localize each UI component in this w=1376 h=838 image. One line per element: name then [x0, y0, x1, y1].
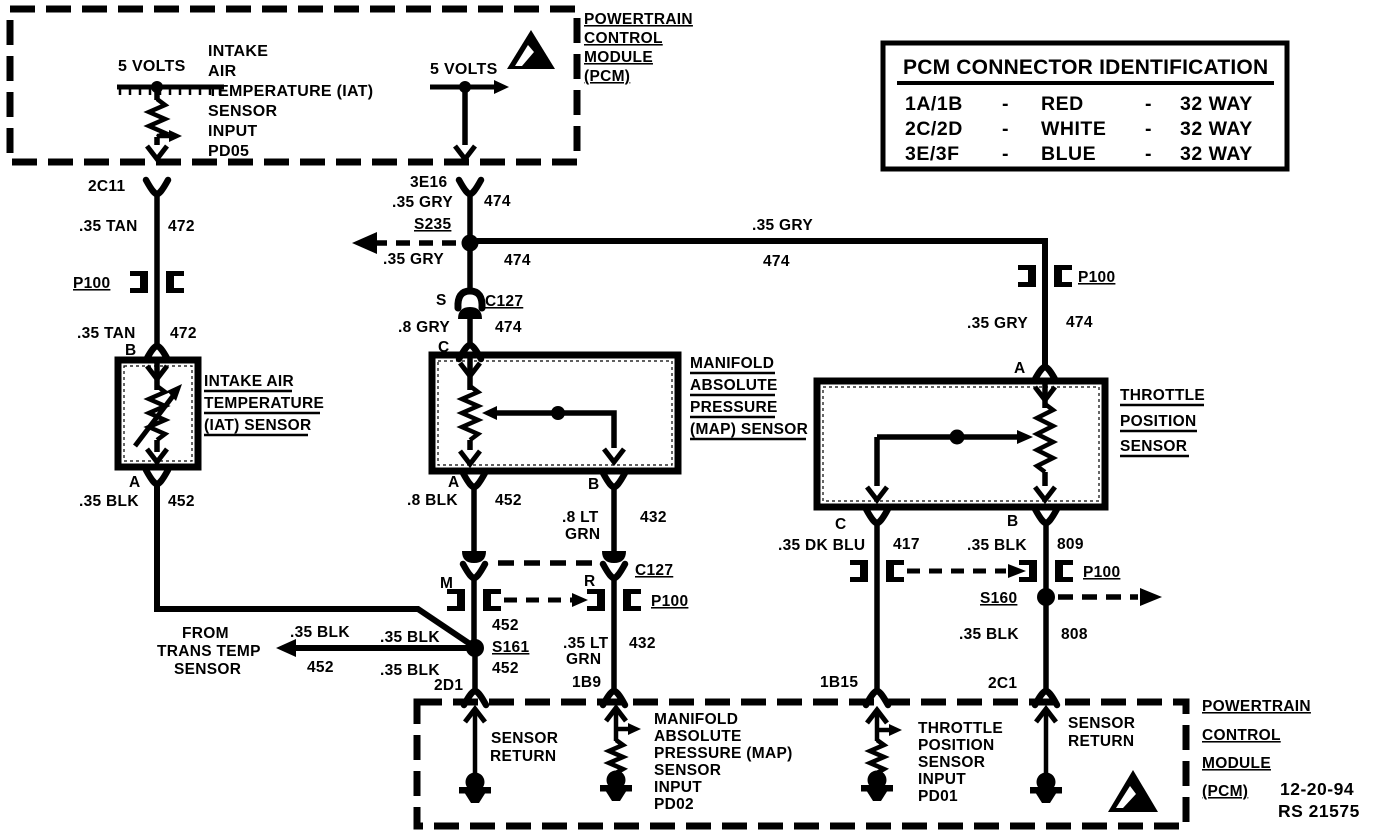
svg-text:.35 TAN: .35 TAN — [77, 325, 136, 342]
label: THROTTLE POSITION SENSOR — [1120, 387, 1205, 456]
label: .35 GRY (left branch) — [383, 251, 444, 268]
svg-text:.8 LT: .8 LT — [562, 509, 599, 526]
pin A label (IAT sensor) — [129, 474, 141, 491]
splice S161 — [466, 639, 484, 657]
pin A label (TPS) — [1014, 360, 1026, 377]
pin 1B15 label — [820, 674, 858, 691]
label: .35 DK BLU 417 — [778, 536, 920, 554]
ground (1B9 MAP input) — [600, 771, 632, 802]
pin B label (MAP sensor) — [588, 476, 600, 493]
svg-text:474: 474 — [763, 253, 790, 270]
svg-text:C: C — [835, 516, 847, 533]
ground (2D1 sensor return) — [459, 773, 491, 804]
svg-text:SENSOR: SENSOR — [208, 103, 278, 120]
connector P100 label (C/B) — [1083, 564, 1120, 581]
pin C label (TPS) — [835, 516, 847, 533]
svg-text:P100: P100 — [1083, 564, 1120, 581]
label: .35 TAN 472 (upper) — [79, 218, 195, 235]
svg-text:S235: S235 — [414, 216, 451, 233]
IAT thermistor element — [135, 363, 182, 462]
svg-text:452: 452 — [495, 492, 522, 509]
pin C label (MAP sensor) — [438, 339, 450, 356]
svg-text:POWERTRAIN: POWERTRAIN — [584, 11, 693, 28]
label: THROTTLE POSITION SENSOR INPUT PD01 — [918, 720, 1003, 805]
svg-text:32 WAY: 32 WAY — [1180, 118, 1253, 140]
label: .35 GRY 474 (3E16) — [392, 193, 511, 211]
svg-text:TRANS TEMP: TRANS TEMP — [157, 643, 261, 660]
svg-text:.35 TAN: .35 TAN — [79, 218, 138, 235]
svg-text:2C/2D: 2C/2D — [905, 118, 963, 140]
svg-text:PD05: PD05 — [208, 143, 249, 160]
TPS sensor box — [817, 381, 1105, 507]
connector fork at pin 2C11 — [146, 180, 168, 194]
svg-text:.35 BLK: .35 BLK — [380, 629, 440, 646]
svg-text:TEMPERATURE (IAT): TEMPERATURE (IAT) — [208, 83, 373, 100]
connector P100 pass-through (C wire) — [850, 560, 904, 582]
connector C127 half (R wire, male dome) — [602, 551, 626, 563]
drawing number RS 21575 — [1278, 801, 1360, 821]
svg-text:.35 BLK: .35 BLK — [290, 624, 350, 641]
svg-text:32 WAY: 32 WAY — [1180, 93, 1253, 115]
5V supply rail with arrow (MAP/TPS) — [430, 80, 509, 94]
svg-text:R: R — [584, 573, 596, 590]
TPS potentiometer element — [1035, 384, 1055, 500]
label: .35 BLK (diagonal feed) — [380, 629, 440, 646]
label: .35 BLK over 452 (trans temp branch) — [290, 624, 350, 676]
svg-text:.35 BLK: .35 BLK — [959, 626, 1019, 643]
svg-text:PRESSURE: PRESSURE — [690, 399, 778, 416]
label: POWERTRAIN CONTROL MODULE (PCM) bottom right — [1202, 698, 1311, 800]
svg-text:A: A — [448, 474, 460, 491]
svg-text:A: A — [1014, 360, 1026, 377]
connector fork at PCM pin 1B15 — [866, 691, 888, 705]
svg-text:(MAP) SENSOR: (MAP) SENSOR — [690, 421, 808, 438]
svg-text:.35 GRY: .35 GRY — [967, 315, 1028, 332]
label: .35 BLK 808 — [959, 626, 1088, 643]
svg-text:1A/1B: 1A/1B — [905, 93, 963, 115]
label: SENSOR RETURN (2D1) — [490, 730, 558, 765]
branch arrow right (IAT input tap) — [157, 130, 182, 142]
wire: circuit 474 from S235 right and down to TPS pin A — [477, 241, 1045, 366]
svg-text:AIR: AIR — [208, 63, 237, 80]
svg-text:5 VOLTS: 5 VOLTS — [430, 61, 498, 78]
svg-text:SENSOR: SENSOR — [491, 730, 558, 747]
label: INTAKE AIR TEMPERATURE (IAT) SENSOR INPUT PD05 — [208, 43, 373, 160]
dashed off-page branch right from S160 — [1058, 588, 1162, 606]
svg-text:P100: P100 — [651, 593, 688, 610]
svg-text:(PCM): (PCM) — [1202, 783, 1248, 800]
svg-text:POSITION: POSITION — [1120, 413, 1196, 430]
connector P100 pass-through (TPS feed) — [1018, 265, 1072, 287]
connector fork at PCM pin 1B9 — [603, 691, 625, 705]
label: MANIFOLD ABSOLUTE PRESSURE (MAP) SENSOR INPUT PD02 — [654, 711, 793, 813]
svg-text:CONTROL: CONTROL — [1202, 727, 1281, 744]
svg-text:PCM CONNECTOR IDENTIFICATION: PCM CONNECTOR IDENTIFICATION — [903, 56, 1268, 79]
pin 2D1 label — [434, 677, 463, 694]
internal PCM pull-up resistor (IAT input) — [149, 99, 165, 137]
svg-text:1B15: 1B15 — [820, 674, 858, 691]
connector fork at PCM pin 2D1 — [464, 691, 486, 705]
svg-text:.35 GRY: .35 GRY — [752, 217, 813, 234]
pin B label (TPS) — [1007, 513, 1019, 530]
svg-text:INTAKE: INTAKE — [208, 43, 268, 60]
svg-text:32 WAY: 32 WAY — [1180, 143, 1253, 165]
svg-text:RS 21575: RS 21575 — [1278, 801, 1360, 821]
pin 1B9 label — [572, 674, 601, 691]
svg-text:PD02: PD02 — [654, 796, 694, 813]
label: .35 GRY over 474 (long run) — [752, 217, 813, 270]
PCM connector identification table — [883, 43, 1287, 169]
svg-text:THROTTLE: THROTTLE — [1120, 387, 1205, 404]
svg-text:.35 BLK: .35 BLK — [79, 493, 139, 510]
svg-text:ABSOLUTE: ABSOLUTE — [654, 728, 742, 745]
svg-text:809: 809 — [1057, 536, 1084, 553]
svg-text:A: A — [129, 474, 141, 491]
svg-text:P100: P100 — [1078, 269, 1115, 286]
splice S160 label — [980, 590, 1017, 607]
svg-text:POSITION: POSITION — [918, 737, 994, 754]
label: MANIFOLD ABSOLUTE PRESSURE (MAP) SENSOR — [690, 355, 808, 439]
svg-text:C127: C127 — [485, 293, 523, 310]
MAP input circuit (1B9): arrow, tap, resistor — [606, 708, 641, 773]
svg-text:474: 474 — [484, 193, 511, 210]
IAT sensor box — [118, 360, 198, 467]
svg-text:SENSOR: SENSOR — [174, 661, 241, 678]
connector C127 half (M wire, male dome) — [462, 551, 486, 563]
connector P100 label (TPS feed) — [1078, 269, 1115, 286]
ground (1B15 TPS input) — [861, 771, 893, 802]
wire: S161 down to PCM pin 2D1 — [472, 648, 478, 689]
connector fork at PCM pin 2C1 — [1035, 691, 1057, 705]
label: 452 (above S161) — [492, 617, 519, 634]
connector C127 (MAP 5V feed) — [458, 291, 482, 319]
svg-text:2C1: 2C1 — [988, 675, 1017, 692]
svg-text:INTAKE AIR: INTAKE AIR — [204, 373, 294, 390]
junction dot on IAT 5V rail — [151, 81, 163, 93]
wire: circuit 472 from 2C11 to IAT sensor pin B — [154, 194, 160, 345]
svg-text:SENSOR: SENSOR — [918, 754, 985, 771]
svg-text:PD01: PD01 — [918, 788, 958, 805]
dashed link arrow between P100 halves (C to B) — [907, 564, 1026, 578]
svg-text:THROTTLE: THROTTLE — [918, 720, 1003, 737]
pin 3E16 label — [410, 174, 447, 191]
pin M label — [440, 575, 453, 592]
PCM module box (bottom, dashed outline) — [417, 702, 1186, 826]
connector fork at TPS pin C — [866, 509, 888, 523]
svg-text:-: - — [1145, 143, 1152, 165]
pin R label — [584, 573, 596, 590]
connector fork at TPS pin B — [1035, 509, 1057, 523]
svg-text:472: 472 — [168, 218, 195, 235]
svg-text:SENSOR: SENSOR — [1068, 715, 1135, 732]
svg-text:POWERTRAIN: POWERTRAIN — [1202, 698, 1311, 715]
connector P100 pass-through (IAT column) — [130, 271, 184, 293]
svg-text:452: 452 — [492, 660, 519, 677]
sensor return input (2C1) arrow — [1036, 709, 1056, 774]
svg-text:.35 DK BLU: .35 DK BLU — [778, 537, 865, 554]
PCM module box (top, dashed outline) — [10, 9, 577, 162]
wire: S235 down to connector C127 — [467, 243, 473, 293]
junction dot on TPS wiper line — [950, 430, 965, 445]
pin 2C11 label — [88, 178, 125, 195]
label: .35 TAN 472 (lower) — [77, 325, 197, 342]
svg-text:452: 452 — [168, 493, 195, 510]
wire: circuit 808 from TPS pin B to splice S160 — [1043, 523, 1049, 589]
svg-text:S160: S160 — [980, 590, 1017, 607]
svg-text:SENSOR: SENSOR — [1120, 438, 1187, 455]
MAP sensor potentiometer element — [460, 358, 480, 464]
svg-text:MANIFOLD: MANIFOLD — [690, 355, 774, 372]
svg-text:-: - — [1002, 143, 1009, 165]
connector C127 half (R wire, female fork) — [603, 564, 625, 578]
svg-text:MANIFOLD: MANIFOLD — [654, 711, 738, 728]
label: INTAKE AIR TEMPERATURE (IAT) SENSOR — [204, 373, 324, 435]
off-page arrow: FROM TRANS TEMP SENSOR — [276, 639, 468, 657]
connector C127 half (M wire, female fork) — [463, 564, 485, 578]
svg-text:RED: RED — [1041, 93, 1084, 115]
label: .35 BLK 809 — [967, 536, 1084, 554]
svg-text:452: 452 — [492, 617, 519, 634]
MAP wiper arrow and signal takeoff to pin B — [482, 406, 624, 462]
svg-text:INPUT: INPUT — [918, 771, 966, 788]
connector C127 label — [485, 293, 523, 310]
junction dot on MAP wiper line — [551, 406, 565, 420]
connector fork at IAT pin A — [146, 470, 168, 484]
svg-text:P100: P100 — [73, 275, 110, 292]
connector fork at TPS pin A — [1034, 367, 1056, 381]
pin B label (IAT sensor) — [125, 342, 137, 359]
connector fork at pin 3E16 — [459, 180, 481, 194]
ESD sensitivity triangle (top) — [507, 30, 555, 69]
svg-text:FROM: FROM — [182, 625, 229, 642]
svg-text:INPUT: INPUT — [654, 779, 702, 796]
svg-text:BLUE: BLUE — [1041, 143, 1096, 165]
svg-text:PRESSURE (MAP): PRESSURE (MAP) — [654, 745, 793, 762]
label: POWERTRAIN CONTROL MODULE (PCM) top right — [584, 11, 693, 85]
wire: circuit 808 from S160 to PCM pin 2C1 — [1043, 597, 1049, 689]
label: .8 LT GRN 432 — [562, 509, 667, 543]
MAP sensor box — [432, 355, 678, 471]
splice S160 — [1037, 588, 1055, 606]
svg-text:SENSOR: SENSOR — [654, 762, 721, 779]
svg-text:B: B — [125, 342, 137, 359]
svg-text:-: - — [1002, 93, 1009, 115]
label: 474 (below splice) — [504, 252, 531, 269]
svg-text:(IAT) SENSOR: (IAT) SENSOR — [204, 417, 312, 434]
svg-text:B: B — [1007, 513, 1019, 530]
svg-text:C127: C127 — [635, 562, 673, 579]
wire: circuit 432 from MAP pin B to C127 — [611, 487, 617, 551]
svg-text:RETURN: RETURN — [490, 748, 556, 765]
TPS input circuit (1B15): arrow, tap, resistor — [867, 710, 902, 773]
wire: circuit 452 from MAP pin A to C127 — [471, 487, 477, 551]
splice S235 — [462, 235, 479, 252]
svg-text:CONTROL: CONTROL — [584, 30, 663, 47]
pin A label (MAP sensor) — [448, 474, 460, 491]
svg-text:432: 432 — [640, 509, 667, 526]
svg-text:474: 474 — [1066, 314, 1093, 331]
svg-text:.35 BLK: .35 BLK — [967, 537, 1027, 554]
connector C127 dashed body line — [498, 560, 592, 566]
date code 12-20-94 — [1280, 779, 1354, 799]
wire: circuit 452 from IAT pin A to splice S161 — [157, 484, 473, 646]
label: .35 GRY 474 (TPS feed) — [967, 314, 1093, 332]
svg-text:INPUT: INPUT — [208, 123, 258, 140]
svg-text:3E16: 3E16 — [410, 174, 447, 191]
svg-text:GRN: GRN — [565, 526, 600, 543]
svg-text:S161: S161 — [492, 639, 529, 656]
svg-text:-: - — [1002, 118, 1009, 140]
svg-text:S: S — [436, 292, 447, 309]
ESD sensitivity triangle (bottom) — [1108, 770, 1158, 812]
connector fork at MAP pin C — [459, 345, 481, 359]
svg-text:-: - — [1145, 118, 1152, 140]
svg-text:.8 BLK: .8 BLK — [407, 492, 458, 509]
svg-text:.35 GRY: .35 GRY — [392, 194, 453, 211]
svg-text:2D1: 2D1 — [434, 677, 463, 694]
svg-text:B: B — [588, 476, 600, 493]
svg-text:417: 417 — [893, 536, 920, 553]
svg-text:-: - — [1145, 93, 1152, 115]
wire: circuit 474 from 3E16 to splice S235 — [467, 194, 473, 240]
svg-text:WHITE: WHITE — [1041, 118, 1106, 140]
svg-text:3E/3F: 3E/3F — [905, 143, 960, 165]
wire: M pin down to splice S161 — [471, 578, 477, 640]
connector fork at MAP pin B — [603, 473, 625, 487]
svg-text:MODULE: MODULE — [1202, 755, 1271, 772]
pin S label (C127) — [436, 292, 447, 309]
TPS wiper arrow and signal takeoff to pin C — [867, 430, 1033, 500]
svg-text:5 VOLTS: 5 VOLTS — [118, 58, 186, 75]
splice S161 label — [492, 639, 529, 656]
svg-text:2C11: 2C11 — [88, 178, 125, 195]
connector C127 label (second crossing) — [635, 562, 673, 579]
5 VOLTS label (MAP/TPS supply) — [430, 61, 498, 78]
svg-text:.35 BLK: .35 BLK — [380, 662, 440, 679]
svg-text:1B9: 1B9 — [572, 674, 601, 691]
wire: rail to internal resistor — [154, 87, 160, 100]
svg-text:808: 808 — [1061, 626, 1088, 643]
connector fork at IAT pin B — [146, 346, 168, 360]
connector P100 pass-through (M wire) — [447, 589, 501, 611]
splice S235 label — [414, 216, 451, 233]
svg-text:GRN: GRN — [566, 651, 601, 668]
ground (2C1 sensor return) — [1030, 773, 1062, 804]
label: .35 BLK (below splice) — [380, 662, 440, 679]
label: FROM TRANS TEMP SENSOR — [157, 625, 261, 678]
svg-text:TEMPERATURE: TEMPERATURE — [204, 395, 324, 412]
wire: circuit 417 from TPS pin C to PCM pin 1B15 — [874, 523, 880, 689]
svg-text:12-20-94: 12-20-94 — [1280, 779, 1354, 799]
connector P100 pass-through (B wire) — [1019, 560, 1073, 582]
svg-text:(PCM): (PCM) — [584, 68, 630, 85]
5 VOLTS label (IAT supply) — [118, 58, 186, 75]
svg-text:MODULE: MODULE — [584, 49, 653, 66]
label: .8 BLK 452 — [407, 492, 522, 509]
wire: R pin down to PCM pin 1B9 — [611, 578, 617, 689]
dashed link arrow between P100 halves (M to R) — [504, 593, 588, 607]
5V supply rail (IAT) — [117, 87, 224, 95]
wire with open arrow down to PCM pin 3E16 — [455, 87, 475, 159]
label: .35 BLK 452 (IAT ground) — [79, 493, 195, 510]
svg-text:472: 472 — [170, 325, 197, 342]
svg-text:RETURN: RETURN — [1068, 733, 1134, 750]
label: .35 LT GRN 432 — [563, 635, 656, 668]
connector P100 label (IAT column) — [73, 275, 110, 292]
svg-text:.35 GRY: .35 GRY — [383, 251, 444, 268]
label: 452 (below S161) — [492, 660, 519, 677]
svg-text:452: 452 — [307, 659, 334, 676]
wire with open arrow down to PCM pin 2C11 — [147, 137, 167, 159]
connector P100 pass-through (R wire) — [587, 589, 641, 611]
wire: C127 to MAP pin C — [467, 316, 473, 344]
junction dot on MAP/TPS 5V rail — [459, 81, 471, 93]
dashed off-page branch left from S235 — [352, 232, 456, 254]
svg-text:474: 474 — [504, 252, 531, 269]
svg-text:.8 GRY: .8 GRY — [398, 319, 450, 336]
connector P100 label (M/R) — [651, 593, 688, 610]
svg-text:ABSOLUTE: ABSOLUTE — [690, 377, 778, 394]
label: .8 GRY 474 — [398, 319, 522, 336]
connector fork at MAP pin A — [463, 473, 485, 487]
svg-text:.35 LT: .35 LT — [563, 635, 609, 652]
label: SENSOR RETURN (2C1) — [1068, 715, 1135, 750]
pin 2C1 label — [988, 675, 1017, 692]
svg-text:432: 432 — [629, 635, 656, 652]
sensor return input (2D1) arrow — [465, 709, 485, 774]
svg-text:474: 474 — [495, 319, 522, 336]
